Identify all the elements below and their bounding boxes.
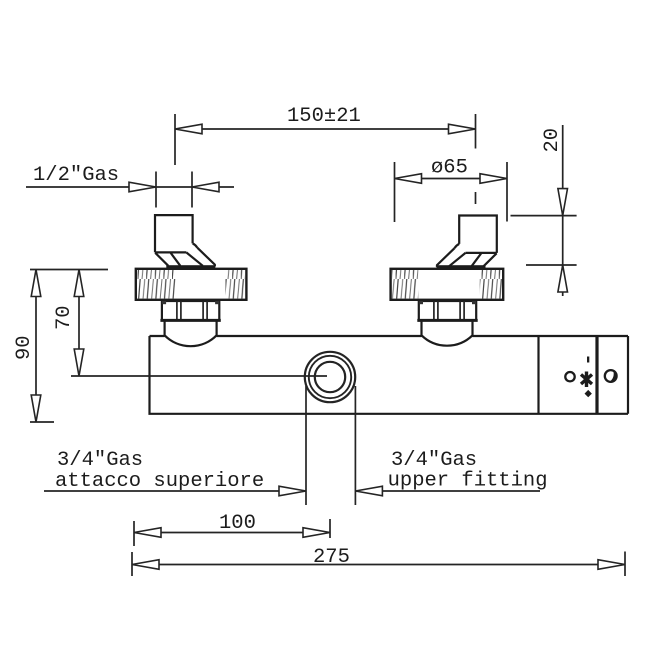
dim 20 arrow up bbox=[558, 265, 568, 292]
dim ø65 arrow left bbox=[395, 174, 422, 184]
dim 20 vertical line bbox=[562, 125, 564, 296]
bell dome R bbox=[422, 320, 473, 345]
dim 70 line bbox=[78, 270, 80, 377]
dim 150 arrow left bbox=[175, 124, 202, 134]
dim 70 arrow down bbox=[74, 349, 84, 376]
dim 90 bottom tick bbox=[30, 421, 54, 423]
dim 100 arrow right bbox=[303, 528, 330, 538]
dim 90 line bbox=[35, 270, 37, 423]
dim 275 arrow right bbox=[598, 560, 625, 570]
elbow band2 inner R bbox=[472, 253, 482, 266]
dim 275 line bbox=[132, 564, 625, 566]
dim 275 arrow left bbox=[132, 560, 159, 570]
knurl ring R bbox=[391, 269, 504, 300]
knurl ring L bbox=[136, 269, 247, 300]
body bbox=[150, 336, 629, 414]
control star blob bbox=[581, 372, 592, 388]
dim 150 line bbox=[175, 128, 476, 130]
elbow band inner R bbox=[449, 253, 466, 266]
dim ø65 line bbox=[395, 178, 508, 180]
dim 150 ext left bbox=[174, 114, 176, 165]
dim 90/70 top ext bbox=[30, 269, 108, 271]
svg-text:3/4"Gas: 3/4"Gas bbox=[57, 449, 143, 472]
dim 20 bottom line bbox=[526, 264, 577, 266]
dim 1/2 arrow left bbox=[129, 182, 156, 192]
dim 275 tick left bbox=[131, 552, 133, 576]
square stub L bbox=[155, 215, 193, 252]
svg-text:20: 20 bbox=[541, 128, 564, 153]
svg-text:150±21: 150±21 bbox=[287, 105, 361, 128]
flange plate L bbox=[166, 265, 215, 269]
dim 20 arrow down bbox=[558, 189, 568, 216]
center leader to outlet bbox=[71, 375, 327, 377]
control dash above bbox=[587, 357, 589, 363]
dim 1/2 tick right bbox=[191, 172, 193, 208]
svg-text:ø65: ø65 bbox=[431, 157, 468, 180]
elbow band outer R bbox=[437, 248, 455, 267]
outlet circle outer bbox=[305, 352, 355, 402]
square stub R bbox=[459, 216, 497, 253]
svg-text:90: 90 bbox=[13, 335, 36, 360]
elbow band2 inner L bbox=[170, 252, 180, 265]
collar R bbox=[417, 319, 477, 322]
control dot below bbox=[585, 390, 592, 397]
dim 1/2 arrow right bbox=[192, 182, 219, 192]
dim 100 line bbox=[134, 532, 330, 534]
dim 70 arrow up bbox=[74, 270, 84, 297]
nut L bbox=[162, 301, 219, 320]
leader right bbox=[355, 490, 540, 492]
dim ø65 arrow right bbox=[480, 174, 507, 184]
dim 100 tick left bbox=[133, 521, 135, 546]
leader left bbox=[44, 490, 306, 492]
nut R bbox=[419, 301, 476, 320]
svg-text:70: 70 bbox=[53, 305, 76, 330]
control circle O bbox=[565, 372, 574, 381]
leader right arrow bbox=[355, 486, 382, 496]
elbow band2 outer R bbox=[484, 253, 497, 266]
bell dome L bbox=[165, 320, 217, 346]
outlet circle middle bbox=[309, 356, 351, 398]
dim 100 arrow left bbox=[134, 528, 161, 538]
body divider 1 bbox=[537, 336, 539, 414]
elbow band outer L bbox=[197, 248, 215, 267]
svg-text:275: 275 bbox=[313, 546, 350, 569]
dim 90 arrow down bbox=[31, 395, 41, 422]
control knob circle bbox=[605, 370, 617, 382]
flange plate R bbox=[437, 265, 486, 269]
collar L bbox=[160, 319, 220, 322]
dim 90 arrow up bbox=[31, 270, 41, 297]
center dash right fitting bbox=[475, 192, 477, 204]
svg-text:attacco superiore: attacco superiore bbox=[55, 470, 264, 493]
leader left arrow bbox=[279, 486, 306, 496]
dim 150 arrow right bbox=[449, 124, 476, 134]
svg-text:upper fitting: upper fitting bbox=[388, 470, 548, 493]
elbow band2 outer L bbox=[155, 253, 168, 266]
elbow band inner L bbox=[186, 252, 203, 265]
control knob crescent bbox=[609, 370, 619, 385]
outlet circle inner bbox=[315, 362, 345, 392]
dim 100 tick right bbox=[329, 519, 331, 538]
dim 20 top line bbox=[511, 215, 577, 217]
svg-text:1/2"Gas: 1/2"Gas bbox=[33, 164, 119, 187]
elbow chamfer L bbox=[193, 243, 198, 247]
pipe tangent line left bbox=[305, 386, 307, 505]
svg-text:100: 100 bbox=[219, 512, 256, 535]
body divider 2 (thick) bbox=[595, 336, 598, 414]
dim ø65 ext right bbox=[506, 162, 508, 222]
elbow chamfer R bbox=[455, 244, 460, 248]
dim 150 ext right bbox=[475, 114, 477, 149]
dim ø65 ext left bbox=[394, 162, 396, 222]
dim 1/2 line bbox=[26, 186, 234, 188]
dim 1/2 tick left bbox=[155, 172, 157, 208]
pipe tangent line right bbox=[354, 386, 356, 505]
dim 275 tick right bbox=[624, 552, 626, 577]
